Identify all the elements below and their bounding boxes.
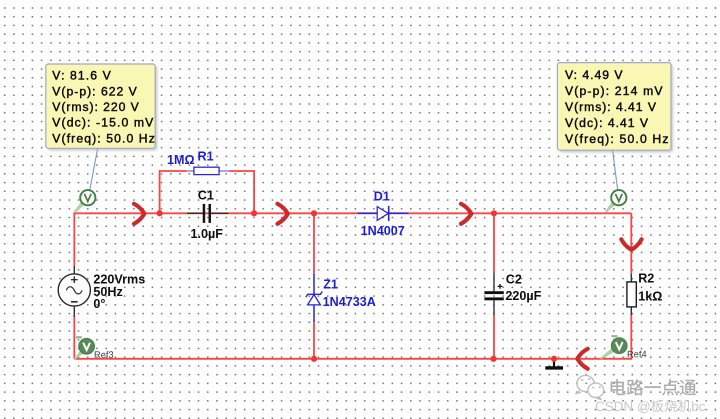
svg-text:V(dc): 4.41 V: V(dc): 4.41 V bbox=[565, 116, 649, 130]
svg-text:V(freq): 50.0 Hz: V(freq): 50.0 Hz bbox=[565, 132, 669, 146]
svg-text:V: 4.49 V: V: 4.49 V bbox=[565, 68, 623, 82]
svg-text:V(rms): 4.41 V: V(rms): 4.41 V bbox=[565, 100, 657, 114]
svg-text:V(dc): -15.0 mV: V(dc): -15.0 mV bbox=[52, 116, 154, 130]
svg-text:C2: C2 bbox=[506, 272, 522, 286]
svg-text:1N4733A: 1N4733A bbox=[323, 295, 376, 309]
svg-text:0°: 0° bbox=[93, 297, 105, 311]
svg-text:R1: R1 bbox=[198, 149, 214, 163]
svg-text:V(freq): 50.0 Hz: V(freq): 50.0 Hz bbox=[52, 131, 155, 145]
svg-text:V(p-p): 214 mV: V(p-p): 214 mV bbox=[565, 84, 663, 98]
svg-text:1N4007: 1N4007 bbox=[361, 224, 405, 238]
svg-text:D1: D1 bbox=[374, 190, 390, 204]
svg-text:1kΩ: 1kΩ bbox=[638, 289, 662, 303]
svg-text:C1: C1 bbox=[198, 188, 214, 202]
svg-text:Z1: Z1 bbox=[323, 278, 338, 292]
svg-text:1MΩ: 1MΩ bbox=[167, 153, 195, 167]
svg-text:V: 81.6 V: V: 81.6 V bbox=[52, 69, 111, 83]
svg-text:220µF: 220µF bbox=[505, 289, 541, 303]
svg-text:1.0µF: 1.0µF bbox=[191, 227, 224, 241]
svg-text:R2: R2 bbox=[638, 272, 654, 286]
svg-text:V(rms): 220 V: V(rms): 220 V bbox=[52, 100, 139, 114]
svg-text:V(p-p): 622 V: V(p-p): 622 V bbox=[52, 84, 137, 98]
